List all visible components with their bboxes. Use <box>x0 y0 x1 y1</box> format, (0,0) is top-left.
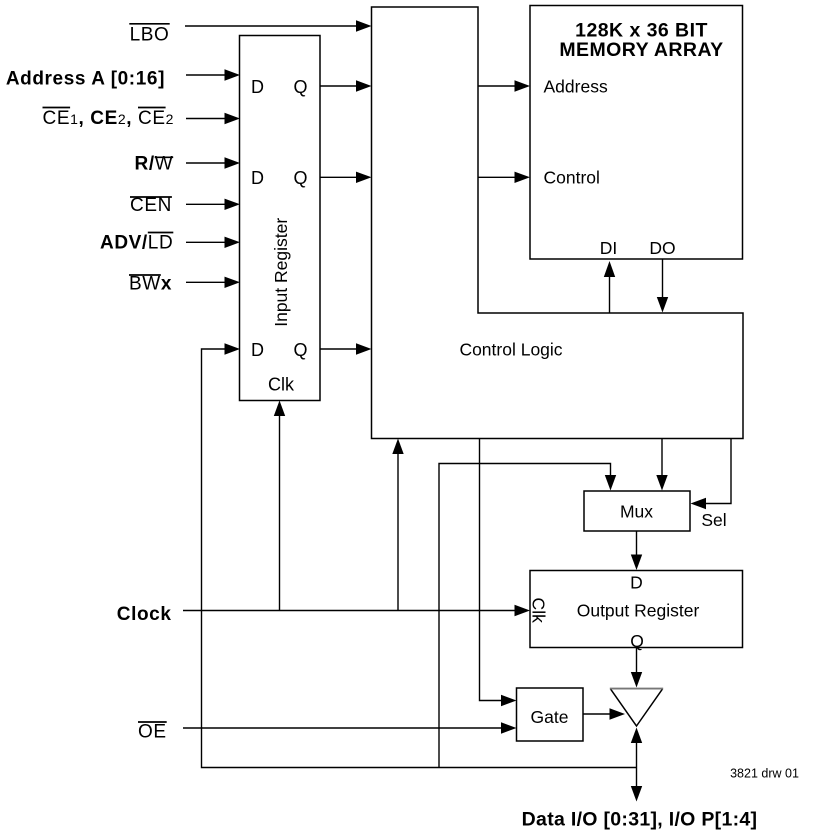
svg-text:Q: Q <box>293 168 307 188</box>
svg-text:3821 drw 01: 3821 drw 01 <box>730 767 799 781</box>
arrowhead sel into mux <box>691 498 707 509</box>
svg-text:Output Register: Output Register <box>577 601 700 621</box>
wire CEN input <box>186 203 226 205</box>
svg-text:Control Logic: Control Logic <box>459 340 562 360</box>
arrowhead Address A into input register <box>225 69 241 80</box>
wire control to memory array <box>478 176 516 178</box>
control logic box <box>372 7 744 439</box>
wire output register Q to buffer <box>636 648 638 673</box>
arrowhead gate into buffer <box>610 708 626 719</box>
svg-text:OE: OE <box>138 722 167 743</box>
arrowhead OE into gate <box>501 722 517 733</box>
arrowhead CEN into input register <box>225 199 241 210</box>
arrowhead down to data pad <box>631 786 642 802</box>
wire clock <box>183 610 516 612</box>
arrowhead Q3 into control logic <box>356 343 372 354</box>
arrowhead BWx into input register <box>225 277 241 288</box>
svg-text:D: D <box>251 77 264 97</box>
arrowhead clock into control logic <box>392 439 403 455</box>
arrowhead CE into input register <box>225 113 241 124</box>
wire BWx input <box>186 281 226 283</box>
arrowhead clock into output register clk <box>515 605 531 616</box>
arrowhead Q into buffer <box>631 672 642 688</box>
arrowhead mux into output register D <box>631 555 642 571</box>
wire LBO <box>185 25 357 27</box>
svg-text:Address A [0:16]: Address A [0:16] <box>6 68 165 89</box>
svg-text:Address: Address <box>544 77 608 97</box>
wire clock branch to input register clk <box>279 415 281 611</box>
mux box <box>584 491 690 531</box>
svg-text:D: D <box>630 573 643 593</box>
svg-text:Input Register: Input Register <box>271 218 291 327</box>
arrowhead control logic into gate <box>501 695 517 706</box>
arrowhead clock into input register clk <box>274 401 285 417</box>
tri-state buffer <box>611 689 663 726</box>
svg-text:Gate: Gate <box>531 707 569 727</box>
arrowhead address into memory array <box>515 80 531 91</box>
wire DI up to memory array <box>609 277 611 313</box>
arrowhead data pad up into buffer <box>631 728 642 744</box>
svg-text:Clk: Clk <box>529 598 549 624</box>
arrowhead LBO into control logic <box>356 20 372 31</box>
arrowhead Q2 into control logic <box>356 172 372 183</box>
arrowhead DO into control logic <box>657 297 668 313</box>
arrowhead data feed into mux <box>605 475 616 491</box>
wire data feed to mux <box>439 464 611 768</box>
svg-text:Data I/O [0:31], I/O P[1:4]: Data I/O [0:31], I/O P[1:4] <box>522 809 758 831</box>
svg-text:LBO: LBO <box>130 25 170 46</box>
svg-text:DI: DI <box>600 238 618 258</box>
svg-text:Q: Q <box>293 77 307 97</box>
wire mux to output register D <box>636 531 638 556</box>
svg-text:Q: Q <box>630 631 644 651</box>
wire Q3 to control logic <box>320 348 357 350</box>
wire control logic to mux <box>661 439 663 477</box>
svg-text:DO: DO <box>649 238 675 258</box>
svg-text:ADV/LD: ADV/LD <box>100 233 173 254</box>
svg-text:Clk: Clk <box>268 375 295 395</box>
wire Q2 to control logic <box>320 176 357 178</box>
wire data feedback to input register D <box>202 349 637 768</box>
memory array box <box>530 6 743 260</box>
gate box <box>517 688 584 741</box>
arrowhead ADV/LD into input register <box>225 237 241 248</box>
wire clock branch to control logic <box>397 453 399 611</box>
svg-text:CE1, CE2, CE2: CE1, CE2, CE2 <box>43 108 175 129</box>
svg-text:BWx: BWx <box>129 274 172 295</box>
wire sel <box>705 439 731 504</box>
svg-text:CEN: CEN <box>130 195 172 216</box>
wire control logic to gate <box>480 439 503 701</box>
wire buffer to data pad <box>636 742 638 788</box>
svg-text:Q: Q <box>293 340 307 360</box>
wire address to memory array <box>478 85 516 87</box>
arrowhead Q1 into control logic <box>356 80 372 91</box>
arrowhead control logic into mux <box>656 475 667 491</box>
svg-text:Sel: Sel <box>701 510 726 530</box>
wire Address A input <box>186 74 226 76</box>
arrowhead DI into memory array <box>604 261 615 277</box>
svg-text:Clock: Clock <box>117 604 172 625</box>
svg-text:MEMORY ARRAY: MEMORY ARRAY <box>559 39 723 61</box>
arrowhead D3 into input register <box>225 343 241 354</box>
wire DO down to control logic <box>662 259 664 298</box>
svg-text:Mux: Mux <box>620 502 653 522</box>
wire ADV/LD input <box>186 241 226 243</box>
svg-text:D: D <box>251 168 264 188</box>
svg-text:Control: Control <box>544 168 600 188</box>
output register box <box>530 571 743 648</box>
wire CE input <box>186 118 226 120</box>
svg-text:D: D <box>251 340 264 360</box>
wire gate to buffer <box>583 713 611 715</box>
arrowhead control into memory array <box>515 172 531 183</box>
input register box <box>240 36 321 401</box>
wire R/W input <box>186 162 226 164</box>
arrowhead R/W into input register <box>225 157 241 168</box>
wire OE <box>183 727 502 729</box>
wire Q1 to control logic <box>320 85 357 87</box>
